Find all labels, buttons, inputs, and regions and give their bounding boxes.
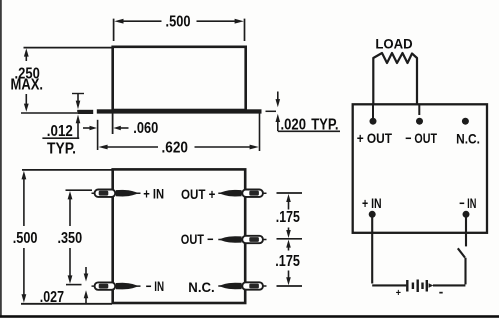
svg-text:+ IN: + IN [143,186,164,202]
svg-text:.012: .012 [47,123,73,140]
svg-text:.175: .175 [276,209,300,226]
svg-text:− OUT: − OUT [405,130,437,146]
svg-text:.500: .500 [13,230,38,247]
svg-text:.060: .060 [133,120,158,137]
svg-text:TYP.: TYP. [47,141,76,158]
svg-text:+: + [396,288,401,299]
svg-text:.500: .500 [166,14,191,31]
svg-text:OUT −: OUT − [181,231,214,247]
svg-text:LOAD: LOAD [375,35,412,51]
svg-text:− IN: − IN [146,278,164,294]
svg-text:.027: .027 [40,289,64,306]
svg-text:+ IN: + IN [362,195,382,211]
svg-text:N.C.: N.C. [188,279,214,295]
svg-text:+ OUT: + OUT [357,130,393,146]
svg-text:.620: .620 [162,139,189,156]
svg-text:TYP.: TYP. [311,117,338,134]
svg-text:MAX.: MAX. [11,77,44,94]
svg-text:N.C.: N.C. [456,131,480,147]
svg-text:OUT +: OUT + [181,186,215,202]
svg-text:.020: .020 [281,117,307,134]
svg-text:− IN: − IN [459,195,476,211]
svg-text:.175: .175 [275,253,300,270]
svg-text:.350: .350 [58,230,83,247]
